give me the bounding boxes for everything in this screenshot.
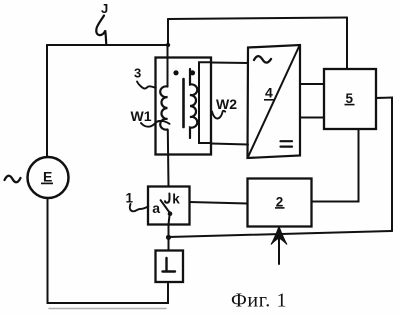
wire: switch bottom to inductor L — [168, 225, 170, 251]
block 5 box — [324, 69, 376, 129]
svg-text:W1: W1 — [131, 108, 152, 124]
AC tilde left of E — [5, 176, 21, 183]
converter U4 box — [248, 45, 301, 158]
svg-text:4: 4 — [265, 85, 273, 101]
node: junction at transformer top feed — [166, 43, 170, 47]
DC sign inside 4 — [281, 141, 293, 146]
leader squiggle for label W1 — [141, 121, 170, 127]
wire: E top vertical — [46, 45, 48, 157]
leader squiggle for label 1 — [130, 204, 148, 211]
wire: secondary top to converter 4 — [211, 62, 248, 65]
wire: W1 primary top lead — [167, 45, 169, 86]
wire: L bottom return loop to source E — [48, 198, 169, 303]
wire: top rail — [168, 18, 347, 20]
wire: riser to top rail — [167, 19, 169, 45]
svg-text:E: E — [43, 169, 52, 185]
source E circle — [28, 157, 69, 198]
svg-text:1: 1 — [126, 190, 134, 205]
svg-text:2: 2 — [276, 194, 284, 209]
polarity dot right — [190, 70, 195, 75]
svg-text:W2: W2 — [216, 96, 237, 112]
AC tilde inside 4 — [254, 56, 271, 63]
wire: block 5 bottom to block 2 — [312, 129, 359, 202]
wire: secondary bottom to converter 4 — [211, 144, 248, 145]
transformer core — [182, 79, 185, 127]
winding W1 — [160, 86, 167, 129]
svg-text:k: k — [172, 192, 180, 207]
svg-text:J: J — [101, 1, 108, 16]
wire: drop from top rail into block 5 — [346, 18, 348, 70]
converter U4 diagonal — [248, 46, 300, 158]
wire: bottom return rail to switch junction — [169, 231, 393, 237]
polarity dot left — [173, 70, 178, 75]
block 2 box — [248, 179, 312, 227]
svg-text:a: a — [152, 200, 160, 216]
wire: converter 4 to block 5 lower — [300, 117, 324, 119]
wire: converter 4 to block 5 upper — [300, 83, 324, 85]
winding W2 — [190, 69, 197, 138]
svg-text:5: 5 — [346, 91, 354, 106]
switch S1 box — [148, 187, 190, 225]
inductor L glyph — [163, 258, 176, 272]
control arrow into block 2 — [278, 238, 280, 264]
leader squiggle for label 3 — [137, 82, 156, 89]
scan shadow under bottom wire — [49, 308, 166, 310]
switch pivot dot — [168, 211, 173, 216]
svg-text:3: 3 — [134, 66, 141, 81]
wire: switch to block 2 — [190, 202, 248, 204]
wire: block 5 right to outer right drop — [376, 98, 392, 232]
svg-text:Фиг. 1: Фиг. 1 — [231, 290, 287, 312]
wire: W1 primary bottom lead to switch — [167, 130, 170, 187]
wire: top horizontal from E to transformer — [47, 44, 168, 46]
wire: pivot to box bottom — [169, 215, 170, 225]
inductor L box — [156, 251, 184, 283]
switch fixed contact k lead with hook — [165, 194, 170, 203]
transformer T outer box 3 — [156, 58, 212, 155]
node: junction to bottom rail — [166, 235, 171, 240]
leader squiggle for label W2 — [212, 111, 225, 119]
transformer secondary box — [199, 62, 211, 143]
current J break symbol — [96, 16, 106, 44]
switch blade a — [161, 200, 170, 213]
